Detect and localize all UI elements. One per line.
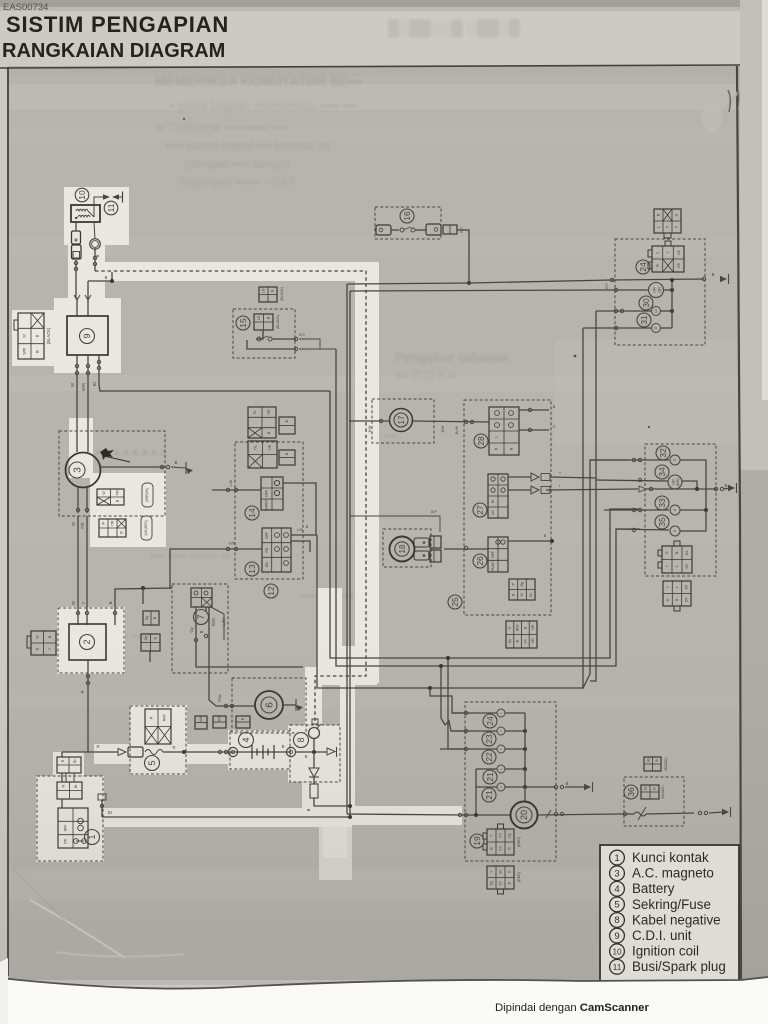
highlight patch battery (228, 730, 290, 770)
relay 6 circled number (261, 697, 277, 713)
diagram left border (7, 67, 9, 976)
circled 28 (474, 434, 488, 448)
svg-text:Y/R: Y/R (111, 520, 115, 526)
connector grid mid B (279, 450, 295, 465)
svg-text:G: G (675, 213, 679, 216)
svg-text:Busi/Spark plug: Busi/Spark plug (632, 959, 726, 974)
wire battery negative east (296, 751, 327, 753)
svg-text:Sekring/Fuse: Sekring/Fuse (632, 897, 711, 912)
ghost bleed-through text (95, 19, 520, 643)
circled 25 (448, 595, 462, 609)
wire row 311 (596, 310, 651, 312)
svg-text:Y/L: Y/L (253, 445, 257, 450)
CDI 9 circled number (80, 329, 95, 344)
ignition coil windings (76, 209, 88, 211)
legend item 10 Ignition coil (610, 944, 625, 959)
regulator 7 connector (191, 588, 212, 607)
highlight band bottom Br wire (88, 808, 352, 827)
relay 6 dashed box (232, 678, 306, 733)
wires magneto down leads (77, 487, 79, 513)
wire stub staircase row 23 (441, 666, 466, 731)
wire run top B to right arrow (347, 279, 704, 284)
main switch 2 box (69, 624, 106, 660)
connector small B left of regulator (141, 634, 160, 651)
wire YR lighting riser (170, 549, 262, 589)
circled 35 (655, 515, 669, 529)
svg-text:B: B (725, 483, 728, 488)
svg-text:B: B (544, 534, 547, 538)
wire row 769 (476, 768, 497, 770)
svg-text:(W/R(W)): (W/R(W)) (145, 488, 149, 502)
svg-text:Y/R: Y/R (80, 523, 85, 530)
AC magneto dashed box (59, 431, 165, 516)
svg-text:L: L (559, 484, 561, 488)
svg-text:C.D.I. unit: C.D.I. unit (632, 928, 692, 943)
paper bottom edge and scanner footer (0, 977, 768, 1024)
svg-text:▪▪▪▪ kabel-kabel ▪▪▪ berikut i: ▪▪▪▪ kabel-kabel ▪▪▪ berikut ini (165, 138, 330, 153)
wire row 787 (476, 786, 497, 788)
wire coil HT lead (94, 197, 103, 217)
right block dashed box (645, 444, 716, 576)
crease bottom left (30, 900, 125, 958)
circled 34 (655, 465, 669, 479)
svg-text:27: 27 (475, 505, 485, 515)
connector grid above 24 (654, 209, 681, 233)
svg-text:1: 1 (614, 853, 619, 864)
svg-text:13: 13 (247, 564, 257, 574)
highlight patch switch 1 connector (53, 752, 84, 777)
riser rows to meter (524, 713, 526, 801)
flasher 17 circle (390, 409, 413, 432)
svg-text:(dengan ▪▪▪▪ lampu): (dengan ▪▪▪▪ lampu) (185, 157, 289, 171)
svg-text:B: B (306, 524, 309, 529)
scanner streaks (8, 66, 740, 900)
diode wire lower (508, 489, 531, 491)
highlight patch main switch 2 (57, 607, 125, 674)
svg-text:Y/R: Y/R (115, 490, 119, 496)
wire fuse 16 down to run (457, 230, 469, 283)
wire row 713 (452, 712, 497, 714)
wires regulator down (196, 607, 303, 667)
wire resistor to bottom bus (314, 798, 350, 806)
svg-text:11: 11 (613, 963, 622, 972)
crease top right (700, 92, 738, 132)
svg-text:25: 25 (450, 597, 460, 607)
riser rows left (475, 769, 477, 815)
connector block 2 under coil (72, 245, 82, 259)
starter relay 6 circle (255, 691, 283, 719)
wire row 460 (590, 459, 669, 461)
flasher 17 circled number (394, 413, 408, 427)
highlight patch below negative cable (302, 770, 342, 814)
svg-text:B/W: B/W (516, 624, 520, 631)
switch 14 circled number (245, 506, 259, 520)
svg-text:33: 33 (657, 498, 667, 508)
main switch connector grid (31, 631, 56, 655)
svg-text:(BLACK): (BLACK) (280, 287, 284, 301)
wire 13 east lower (291, 541, 310, 552)
svg-text:28: 28 (476, 436, 486, 446)
wire run riser 596 (590, 311, 596, 681)
svg-text:10: 10 (612, 947, 622, 956)
connector grid 28 (489, 407, 519, 455)
pad on dashed B wire (312, 719, 318, 724)
svg-text:L/B: L/B (297, 528, 303, 532)
ring UR B (649, 283, 664, 298)
highlight smear below bus (319, 818, 352, 880)
svg-text:Pengukur tahanan: Pengukur tahanan (395, 350, 508, 365)
wires key switch to connectors (61, 752, 63, 757)
connector small A left of regulator (143, 611, 159, 625)
wire relay west (209, 607, 255, 706)
key switch connector lower (57, 782, 82, 799)
svg-text:30: 30 (641, 298, 651, 308)
connector arrows CDI leads (74, 295, 80, 300)
highlight patch CDI unit (54, 298, 121, 373)
svg-text:Battery: Battery (632, 881, 675, 896)
switch 15 dashed box (233, 309, 295, 358)
circled 22 row (482, 750, 496, 764)
svg-text:(BR): (BR) (676, 477, 680, 486)
svg-text:Dipindai dengan CamScanner: Dipindai dengan CamScanner (495, 1002, 649, 1014)
highlight band solid pair lower (340, 646, 355, 818)
ignition coil 10 circled number (75, 188, 89, 202)
svg-text:1G: 1G (257, 315, 261, 320)
svg-text:4: 4 (614, 884, 620, 895)
svg-text:W: W (70, 383, 75, 387)
wire B plug cap down (94, 248, 96, 271)
fuse 16 right terminal (415, 229, 426, 231)
meter 20 circle (511, 802, 538, 829)
svg-text:G5: G5 (685, 564, 689, 569)
main wire row 489 with arrow (546, 489, 638, 490)
ignition coil primary box (71, 205, 100, 222)
dimmer switch 14 grid (261, 477, 283, 510)
wire orange coil feed down (75, 260, 77, 298)
connector ring before battery (228, 747, 237, 756)
wires CDI bottom leads (76, 355, 78, 452)
svg-text:W/R: W/R (81, 383, 86, 391)
svg-text:START: START (265, 499, 269, 510)
connector grid below right block (663, 581, 691, 611)
svg-text:L: L (655, 251, 659, 253)
stain specks (574, 355, 577, 358)
svg-text:W: W (71, 522, 76, 526)
wire B dashed from spark plug to negative cable (95, 271, 366, 722)
battery patch dashed border (230, 731, 290, 769)
wire into 17 west (349, 420, 390, 422)
wire meter east (538, 814, 619, 815)
legend item 5 Sekring/Fuse (610, 897, 625, 912)
svg-text:17: 17 (397, 415, 406, 424)
highlight band wire B horizontal (88, 262, 378, 281)
svg-text:(B): (B) (657, 287, 662, 293)
spark gap symbol (103, 194, 110, 200)
svg-text:L: L (495, 436, 499, 438)
svg-text:Y/R: Y/R (531, 624, 535, 630)
wire row 731 (451, 730, 497, 732)
riser block 24 (671, 280, 673, 328)
svg-text:▪ pada bagian memeriksa ▪▪▪▪ ▪: ▪ pada bagian memeriksa ▪▪▪▪ ▪▪▪ (170, 98, 356, 113)
svg-text:L/W: L/W (229, 479, 233, 486)
svg-text:9: 9 (614, 931, 619, 942)
svg-text:█▒██▒▒█ ▒██▒█: █▒██▒▒█ ▒██▒█ (388, 19, 520, 38)
svg-text:B/Y: B/Y (431, 510, 438, 514)
svg-text:Y: Y (81, 601, 86, 604)
key switch 1 patch dashed border (37, 776, 103, 861)
svg-text:3: 3 (73, 467, 84, 473)
wire run straight pair A down to meter row (346, 284, 348, 814)
flasher 17 dashed box (372, 399, 434, 443)
battery 4 circled number (239, 733, 254, 748)
wires magneto to main switch (77, 516, 79, 625)
wire run Br corner to right side (330, 391, 638, 658)
svg-text:Y/R: Y/R (267, 409, 271, 415)
ground arrow magneto (185, 462, 187, 474)
svg-text:L2: L2 (654, 309, 658, 313)
negative cable 8 circled number (294, 733, 309, 748)
svg-text:SISTIM PENGAPIAN: SISTIM PENGAPIAN (6, 12, 229, 37)
legend item 1 Kunci kontak (610, 850, 625, 865)
svg-text:24: 24 (638, 262, 648, 272)
horn 18 circle (390, 537, 415, 562)
wire 13 east upper (291, 534, 317, 536)
wire CDI top leads (76, 298, 78, 316)
svg-text:A.C. magneto: A.C. magneto (632, 866, 714, 881)
ring UR BR row 481 (668, 475, 682, 489)
wire horn to 26 (444, 548, 488, 550)
svg-text:G: G (665, 551, 669, 554)
wire run lighting to right (317, 328, 583, 688)
wire run to ring 32 row (590, 460, 628, 674)
wire connector B stub (149, 651, 151, 662)
magneto connector grid A (97, 489, 124, 505)
svg-text:Y: Y (559, 471, 562, 475)
switch 15 circled number (236, 316, 250, 330)
svg-text:UR: UR (672, 479, 676, 485)
connector pair lower 25 (506, 621, 537, 648)
battery row wire (62, 751, 118, 753)
connector grid 27 (488, 474, 508, 518)
main bottom row wire (347, 814, 510, 815)
wires 28 east (519, 409, 549, 411)
svg-text:D5: D5 (677, 250, 681, 254)
circled 36 (624, 785, 638, 799)
svg-text:8: 8 (614, 915, 619, 926)
highlight patch magneto wires (69, 418, 93, 478)
legend item 11 Busi/Spark plug (610, 959, 625, 974)
highlight patch ignition coil (64, 187, 129, 245)
switch 15 connector (254, 314, 273, 330)
highlight patch CDI connector (12, 310, 58, 366)
horn plug blocks (430, 536, 441, 548)
legend item 9 C.D.I. unit (610, 928, 625, 943)
highlight band west of pair (317, 588, 342, 685)
arrow end negative wire (327, 748, 335, 755)
svg-text:Gy: Gy (144, 636, 148, 641)
svg-text:5: 5 (666, 226, 670, 228)
circled 24 (636, 260, 650, 274)
svg-text:Ignition coil: Ignition coil (632, 944, 699, 959)
svg-text:G/Y: G/Y (605, 282, 609, 289)
main switch 2 circled number (80, 635, 95, 650)
CDI unit 9 box (67, 316, 108, 355)
diode symbol negative chain (309, 768, 319, 777)
circled 19 (470, 834, 484, 848)
wire run switch15 corner to right side (336, 349, 640, 666)
highlight patch AC magneto (90, 473, 166, 547)
wire Br from CDI (99, 355, 330, 391)
svg-text:Br: Br (92, 381, 97, 386)
svg-text:Gy: Gy (145, 616, 149, 621)
svg-text:(BLACK): (BLACK) (276, 315, 280, 329)
svg-text:B: B (105, 275, 108, 280)
highlight patch fuse 5 (130, 705, 187, 775)
regulator 7 dashed box (172, 584, 228, 673)
svg-text:PO: PO (265, 547, 269, 552)
svg-text:FL: FL (253, 410, 257, 414)
svg-text:RANGKAIAN DIAGRAM: RANGKAIAN DIAGRAM (2, 40, 225, 62)
negative cable ring (309, 728, 320, 739)
label W/R W rounded (142, 483, 153, 507)
fuse element (145, 750, 163, 755)
connector breaker (641, 785, 659, 799)
svg-text:G5: G5 (684, 585, 688, 590)
battery cells symbol (251, 745, 253, 759)
svg-text:1G: 1G (262, 288, 266, 293)
connector block under coil (72, 231, 81, 244)
ring G row 460 (670, 455, 680, 465)
wire box to plug cap ring (94, 222, 95, 239)
svg-text:W/R: W/R (23, 347, 27, 354)
diode wire upper (508, 476, 531, 478)
horn 18 dashed box (383, 529, 431, 567)
svg-text:B: B (712, 272, 715, 277)
connector grid mid A (248, 441, 277, 468)
svg-text:B: B (95, 254, 100, 257)
scan vignette (0, 640, 768, 985)
highlight patch key switch 1 (36, 776, 104, 862)
svg-text:Y/R: Y/R (268, 444, 272, 450)
svg-text:D5: D5 (685, 551, 689, 555)
svg-text:(W/L(B/R)): (W/L(B/R)) (144, 520, 148, 535)
wire row 510 (604, 509, 669, 511)
fuse 5 circled number (145, 756, 160, 771)
connector box R/W relay (213, 715, 226, 728)
block 24 dashed box (615, 239, 705, 345)
magneto connector grid B (99, 519, 126, 537)
circled 21b row (482, 788, 496, 802)
AC magneto rotor circle (66, 453, 101, 488)
bottom bus Br wire (102, 816, 350, 818)
lighting block dashed box (235, 442, 303, 579)
wire B to main switch (115, 588, 172, 625)
highlight band main row right (348, 806, 462, 825)
wire row 328 (583, 327, 651, 329)
spark plug 11 circled number (104, 201, 118, 215)
fuse 5 dashed box (130, 706, 186, 774)
svg-text:D5: D5 (684, 598, 688, 602)
legend item 4 Battery (610, 881, 625, 896)
switch 12 circled number (264, 584, 278, 598)
svg-text:5: 5 (614, 900, 619, 911)
right block connector grid (662, 541, 692, 573)
svg-text:18: 18 (398, 544, 407, 553)
fuse 16 left terminal (376, 225, 391, 235)
wire run second to right (350, 290, 604, 291)
wire breaker east (646, 813, 694, 814)
svg-text:▪▪▪ ▪▪▪▪ ▪▪▪▪▪▪ ▪▪: ▪▪▪ ▪▪▪▪ ▪▪▪▪▪▪ ▪▪ (150, 548, 230, 563)
AC magneto 3 circled number (69, 462, 85, 478)
negative cable patch dashed border (290, 725, 340, 782)
horn 18 circled number (395, 542, 409, 556)
wire 14 east (283, 483, 316, 535)
circled 31 (637, 313, 651, 327)
wire 15 east upper (272, 338, 296, 340)
svg-text:G: G (552, 424, 555, 429)
svg-text:32: 32 (658, 448, 668, 458)
connector symbol on fuse wire (118, 749, 126, 756)
plug cap ring (90, 239, 101, 250)
wire row 530 (616, 529, 669, 530)
wire row 290 (604, 289, 648, 291)
svg-text:5: 5 (675, 226, 679, 228)
svg-text:(BLACK): (BLACK) (46, 327, 51, 344)
wire B stub to dashed bus (88, 272, 112, 281)
connector box R relay (236, 716, 250, 728)
circled 27 (473, 503, 487, 517)
flywheel mark (100, 448, 114, 460)
svg-text:G: G (666, 598, 670, 601)
svg-text:12: 12 (266, 586, 276, 596)
wire breaker row (619, 813, 634, 815)
svg-text:L: L (657, 226, 661, 228)
relay ground east (283, 704, 296, 706)
fuse 16 dashed box (375, 207, 441, 239)
wire B/Y to horn (350, 516, 440, 532)
regulator 7 circled number (194, 610, 209, 625)
svg-text:HI: HI (491, 500, 495, 503)
connector grid 26 (488, 537, 508, 572)
wire coil to connectors (75, 222, 77, 231)
circled 21 row (483, 770, 497, 784)
light switch 13 grid (262, 528, 291, 572)
legend item 8 Kabel negative (610, 913, 625, 928)
wire row 481 (596, 480, 668, 481)
svg-text:ON: ON (265, 562, 269, 568)
svg-text:15: 15 (238, 318, 248, 328)
circled 23 row (482, 732, 496, 746)
block 19 dashed box (465, 702, 556, 861)
svg-text:Tegangan ▪▪▪▪▪▪ = OFF: Tegangan ▪▪▪▪▪▪ = OFF (178, 175, 297, 189)
horn terminals (414, 538, 429, 547)
svg-text:Ch: Ch (529, 593, 533, 597)
svg-text:14: 14 (247, 508, 257, 518)
svg-text:34: 34 (657, 467, 667, 477)
switch 13 circled number (245, 562, 259, 576)
breaker 36 dashed box (624, 777, 684, 826)
circled 26 (473, 554, 487, 568)
svg-text:B/W: B/W (441, 425, 445, 432)
svg-text:▪▪ Cabunga ▪▪▪ ▪▪▪▪▪▪ ▪▪▪: ▪▪ Cabunga ▪▪▪ ▪▪▪▪▪▪ ▪▪▪ (155, 120, 287, 135)
wire 15 to run (299, 339, 320, 349)
circled 30 (639, 296, 653, 310)
svg-text:R/W: R/W (211, 618, 216, 626)
bus left riser to switch 1 (101, 800, 103, 817)
svg-text:Br/W: Br/W (455, 425, 459, 434)
connector above 15 (259, 287, 277, 302)
svg-text:16: 16 (402, 211, 412, 221)
